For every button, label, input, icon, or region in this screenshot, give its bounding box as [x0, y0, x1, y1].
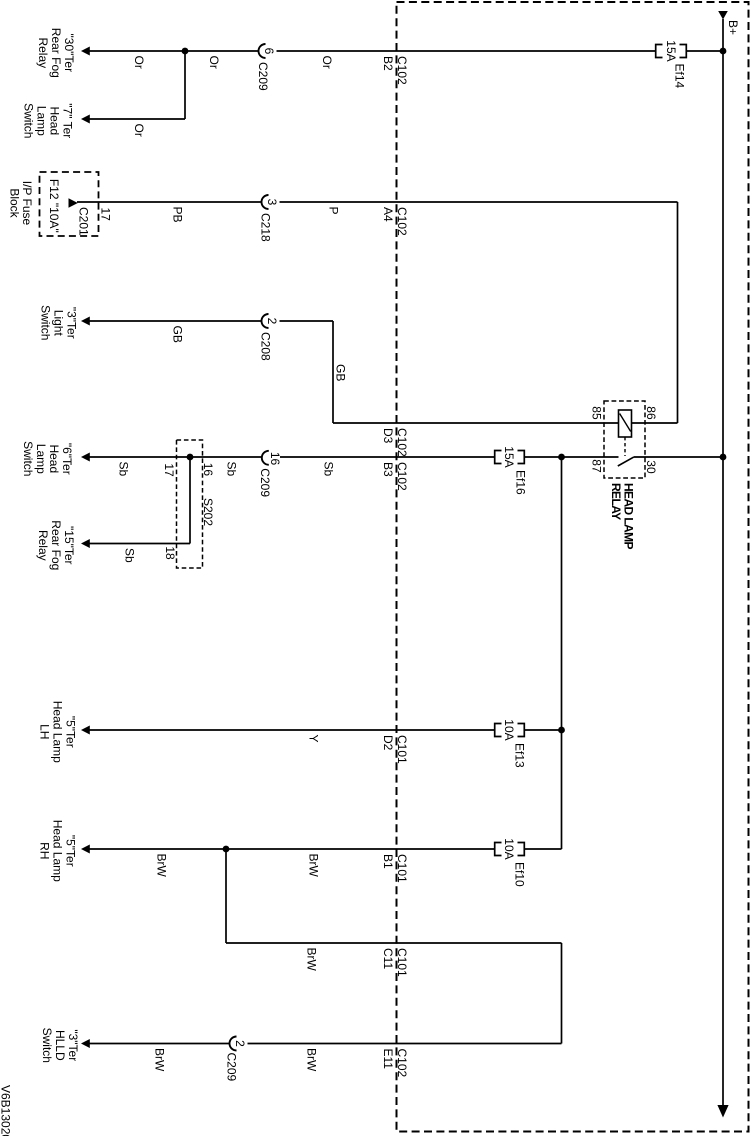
- svg-text:S202: S202: [201, 498, 215, 526]
- svg-text:PB: PB: [171, 207, 185, 223]
- wire feeder vertical to head lamp fuses: [561, 457, 563, 849]
- svg-text:RELAY: RELAY: [609, 483, 623, 520]
- svg-text:E11: E11: [381, 1049, 395, 1070]
- wire BrW vertical row7 to row8: [561, 943, 563, 1044]
- junction feeder tap: [558, 454, 565, 461]
- wire label BrW: [307, 854, 321, 878]
- svg-text:Lamp: Lamp: [35, 106, 49, 136]
- svg-text:Or: Or: [132, 124, 146, 137]
- svg-text:V6B13020: V6B13020: [0, 1085, 13, 1136]
- svg-text:"5"Ter: "5"Ter: [64, 835, 78, 867]
- svg-text:Rear Fog: Rear Fog: [49, 28, 63, 78]
- connector crossing label C102: [395, 207, 409, 236]
- connector crossing label pin E11: [381, 1049, 395, 1070]
- connector crossing label C101: [395, 735, 409, 764]
- splice pin 18 label: [163, 546, 177, 560]
- svg-text:Lamp: Lamp: [34, 444, 48, 474]
- splice pin 17 label: [162, 463, 176, 477]
- wire GB row3 right segment: [280, 320, 334, 322]
- splice pin 16 label: [201, 463, 215, 477]
- svg-text:"30"Ter: "30"Ter: [62, 34, 76, 73]
- svg-text:Rear Fog: Rear Fog: [49, 520, 63, 570]
- svg-text:15A: 15A: [664, 40, 678, 61]
- svg-text:Ef14: Ef14: [672, 64, 686, 89]
- svg-text:Y: Y: [307, 735, 321, 743]
- svg-text:C101: C101: [395, 735, 409, 764]
- terminal arrow "6" Ter Head Lamp Switch: [81, 453, 90, 462]
- wire row1 fuse to B+ rail: [687, 50, 724, 52]
- terminal arrow "5" Ter Head Lamp RH: [81, 845, 90, 854]
- wire label Or: [132, 56, 146, 69]
- connector crossing label pin B2: [381, 56, 395, 71]
- svg-text:B3: B3: [381, 462, 395, 477]
- wire GB vertical jog: [332, 321, 334, 423]
- terminal arrow "15" Ter Rear Fog Relay: [81, 539, 90, 548]
- svg-text:C209: C209: [225, 1053, 239, 1082]
- wire label Or: [207, 56, 221, 69]
- wire Or branch horizontal: [89, 118, 185, 120]
- wire PB row2 left segment: [77, 201, 262, 203]
- wire P row2 right segment: [280, 201, 678, 203]
- splice S202 label: [201, 498, 215, 526]
- svg-text:"7" Ter: "7" Ter: [61, 103, 75, 138]
- fuse Ef14 15A: [656, 40, 687, 88]
- relay switch blade: [618, 457, 634, 466]
- connector C218 pin 3: [258, 195, 279, 242]
- wire Or row1 left segment: [89, 50, 258, 52]
- svg-text:BrW: BrW: [307, 854, 321, 878]
- node "6" Ter Head Lamp Switch label: [21, 441, 74, 476]
- connector crossing label C102: [395, 462, 409, 491]
- svg-text:Ef16: Ef16: [514, 470, 528, 495]
- svg-text:Sb: Sb: [117, 462, 131, 477]
- wire Sb splice branch vertical: [189, 457, 191, 544]
- node "3" Ter Light Switch label: [39, 305, 79, 340]
- svg-text:Relay: Relay: [36, 530, 50, 561]
- svg-text:LH: LH: [38, 724, 52, 739]
- connector crossing label C102: [395, 428, 409, 457]
- svg-text:C101: C101: [395, 854, 409, 883]
- svg-text:85: 85: [590, 406, 604, 420]
- fuse Ef16 15A: [495, 446, 528, 495]
- drawing number V6B13020: [0, 1085, 13, 1136]
- connector C209 pin 6: [256, 44, 276, 91]
- connector C209 pin 16: [258, 451, 282, 498]
- relay pin 85 label: [590, 406, 604, 420]
- wire row6 fuse to feeder corner: [525, 848, 562, 850]
- terminal arrow "3" Ter Light Switch: [81, 317, 90, 326]
- dashed harness boundary box: [397, 2, 749, 1132]
- svg-text:BrW: BrW: [155, 854, 169, 878]
- svg-text:BrW: BrW: [153, 1048, 167, 1072]
- node "5" Ter Head Lamp LH label: [38, 701, 78, 763]
- svg-text:Or: Or: [207, 56, 221, 69]
- svg-text:C102: C102: [395, 428, 409, 457]
- svg-text:Ef10: Ef10: [513, 862, 527, 887]
- wire label GB: [334, 364, 348, 381]
- svg-text:Head Lamp: Head Lamp: [51, 701, 65, 763]
- svg-text:GB: GB: [171, 326, 185, 343]
- junction row4 at B+ rail: [720, 454, 727, 461]
- svg-text:C209: C209: [258, 468, 272, 497]
- svg-text:D2: D2: [381, 735, 395, 751]
- relay pin 86 label: [644, 406, 658, 420]
- fuse F12 "10A" label: [47, 179, 61, 233]
- wire label PB: [171, 207, 185, 223]
- I/P fuse block output arrow: [69, 198, 78, 207]
- svg-text:18: 18: [163, 546, 177, 560]
- svg-text:B2: B2: [381, 56, 395, 71]
- wire Sb fuse to relay pin 87: [525, 456, 619, 458]
- wire relay pin 86 horizontal: [632, 422, 678, 424]
- svg-text:"3"Ter: "3"Ter: [66, 1029, 80, 1061]
- connector crossing label C101: [395, 854, 409, 883]
- wire label BrW: [155, 854, 169, 878]
- svg-text:Switch: Switch: [39, 305, 53, 340]
- wire BrW row8 right segment: [248, 1043, 562, 1045]
- wire BrW row6: [89, 848, 494, 850]
- node "30" Ter Rear Fog Relay label: [36, 28, 76, 78]
- connector crossing label C102: [395, 1049, 409, 1078]
- wire label Sb: [322, 462, 336, 477]
- fuse Ef10 10A: [495, 838, 527, 887]
- wire label Or: [320, 56, 334, 69]
- junction row6 branch: [223, 846, 230, 853]
- fuse Ef13 10A: [495, 719, 527, 768]
- connector crossing label C101: [395, 948, 409, 977]
- wire Sb row4 right segment: [280, 456, 495, 458]
- terminal arrow "3" Ter HLLD Switch: [81, 1039, 90, 1048]
- wire relay pin 30 to B+ rail: [634, 456, 724, 458]
- svg-text:C218: C218: [258, 213, 272, 242]
- svg-text:C102: C102: [395, 207, 409, 236]
- svg-text:B1: B1: [381, 854, 395, 869]
- wire label Sb: [123, 548, 137, 563]
- relay pin 87 label: [590, 459, 604, 473]
- svg-text:Or: Or: [132, 56, 146, 69]
- terminal arrow "7" Ter Head Lamp Switch: [81, 115, 90, 124]
- wire label BrW: [305, 1048, 319, 1072]
- svg-text:Sb: Sb: [123, 548, 137, 563]
- svg-text:17: 17: [162, 463, 176, 477]
- wire BrW branch vertical to row7: [225, 849, 227, 943]
- connector C209 pin 2: [225, 1037, 247, 1082]
- svg-text:Head: Head: [48, 106, 62, 135]
- terminal arrow "30" Ter Rear Fog Relay: [81, 47, 90, 56]
- wire GB row3 left segment: [89, 320, 261, 322]
- pin 17 label: [99, 208, 113, 222]
- svg-text:30: 30: [644, 460, 658, 474]
- svg-text:Switch: Switch: [21, 441, 35, 476]
- I/P Fuse Block dashed box: [40, 172, 99, 236]
- svg-text:Head Lamp: Head Lamp: [51, 820, 65, 882]
- svg-text:C11: C11: [381, 948, 395, 969]
- relay name HEAD LAMP RELAY: [609, 483, 636, 550]
- B+ rail continuation arrow (bottom): [717, 1105, 728, 1118]
- svg-text:Switch: Switch: [22, 103, 36, 138]
- wire P vertical down to relay pin 86: [677, 202, 679, 423]
- svg-text:"15"Ter: "15"Ter: [62, 526, 76, 565]
- svg-text:B+: B+: [726, 20, 740, 35]
- wire label BrW: [153, 1048, 167, 1072]
- svg-text:HLLD: HLLD: [53, 1030, 67, 1061]
- svg-text:Ef13: Ef13: [513, 743, 527, 768]
- terminal arrow "5" Ter Head Lamp LH: [81, 726, 90, 735]
- connector crossing label pin D3: [381, 428, 395, 444]
- svg-text:"6"Ter: "6"Ter: [60, 443, 74, 475]
- wire GB horizontal to relay pin 85: [333, 422, 619, 424]
- svg-text:Light: Light: [52, 310, 66, 337]
- svg-text:P: P: [327, 207, 341, 215]
- svg-text:Switch: Switch: [40, 1028, 54, 1063]
- svg-text:Or: Or: [320, 56, 334, 69]
- relay coil: [619, 410, 632, 437]
- svg-text:BrW: BrW: [305, 948, 319, 972]
- wire row5 fuse to feeder: [525, 729, 562, 731]
- svg-text:"3"Ter: "3"Ter: [65, 307, 79, 339]
- svg-text:Block: Block: [7, 188, 21, 218]
- node B+ label: [726, 20, 740, 35]
- svg-text:F12 "10A": F12 "10A": [47, 179, 61, 233]
- connector C201 label: [77, 207, 91, 236]
- svg-text:3: 3: [265, 199, 279, 206]
- node "5" Ter Head Lamp RH label: [38, 820, 78, 882]
- svg-text:C102: C102: [395, 462, 409, 491]
- svg-text:"5"Ter: "5"Ter: [64, 716, 78, 748]
- connector crossing label C102: [395, 56, 409, 85]
- wire B+ rail vertical: [722, 19, 724, 1106]
- svg-text:17: 17: [99, 208, 113, 222]
- junction S202: [187, 454, 194, 461]
- wire Y row5: [89, 729, 494, 731]
- svg-text:6: 6: [262, 48, 276, 55]
- svg-text:16: 16: [268, 452, 282, 466]
- connector crossing label pin D2: [381, 735, 395, 751]
- wire label Or: [132, 124, 146, 137]
- node "3" Ter HLLD Switch label: [40, 1028, 80, 1063]
- svg-text:Relay: Relay: [36, 37, 50, 68]
- wire BrW row8 left segment: [89, 1043, 229, 1045]
- wire label Y: [307, 735, 321, 743]
- svg-text:10A: 10A: [502, 719, 516, 740]
- wire label Sb: [225, 462, 239, 477]
- svg-text:D3: D3: [381, 428, 395, 444]
- node "15" Ter Rear Fog Relay label: [36, 520, 76, 570]
- relay K1 HEAD LAMP RELAY dashed box: [604, 401, 645, 478]
- svg-text:10A: 10A: [502, 838, 516, 859]
- svg-text:A4: A4: [381, 207, 395, 222]
- relay actuation dashed link: [624, 437, 626, 456]
- wire label BrW: [305, 948, 319, 972]
- wire Sb row4 left segment: [89, 456, 261, 458]
- junction row1 branch: [182, 48, 189, 55]
- B+ feed arrow (top): [718, 11, 728, 20]
- wire Or branch vertical: [184, 51, 186, 119]
- svg-text:2: 2: [265, 318, 279, 325]
- svg-text:C201: C201: [77, 207, 91, 236]
- svg-text:Sb: Sb: [225, 462, 239, 477]
- svg-text:BrW: BrW: [305, 1048, 319, 1072]
- svg-text:Head: Head: [47, 444, 61, 473]
- wire label Sb: [117, 462, 131, 477]
- connector crossing label pin A4: [381, 207, 395, 222]
- connector crossing label pin B1: [381, 854, 395, 869]
- svg-text:16: 16: [201, 463, 215, 477]
- svg-text:RH: RH: [38, 842, 52, 859]
- node I/P Fuse Block label: [7, 181, 34, 226]
- svg-text:Sb: Sb: [322, 462, 336, 477]
- wire label GB: [171, 326, 185, 343]
- svg-text:C102: C102: [395, 1049, 409, 1078]
- svg-text:86: 86: [644, 406, 658, 420]
- connector C208 pin 2: [258, 314, 279, 361]
- connector crossing label pin C11: [381, 948, 395, 969]
- wire label P: [327, 207, 341, 215]
- splice S202 dashed box: [177, 440, 203, 568]
- svg-text:C209: C209: [256, 62, 270, 91]
- wire Or row1 right segment: [277, 50, 656, 52]
- svg-text:C101: C101: [395, 948, 409, 977]
- svg-text:C102: C102: [395, 56, 409, 85]
- svg-text:15A: 15A: [502, 446, 516, 467]
- connector crossing label pin B3: [381, 462, 395, 477]
- svg-text:GB: GB: [334, 364, 348, 381]
- svg-text:C208: C208: [258, 332, 272, 361]
- node "7" Ter Head Lamp Switch label: [22, 103, 75, 138]
- wire Sb branch horizontal: [89, 543, 190, 545]
- svg-text:2: 2: [233, 1040, 247, 1047]
- junction row5 feeder: [558, 727, 565, 734]
- wire BrW row7 horizontal: [226, 942, 562, 944]
- svg-text:87: 87: [590, 459, 604, 473]
- relay pin 30 label: [644, 460, 658, 474]
- junction row1 at B+ rail: [720, 48, 727, 55]
